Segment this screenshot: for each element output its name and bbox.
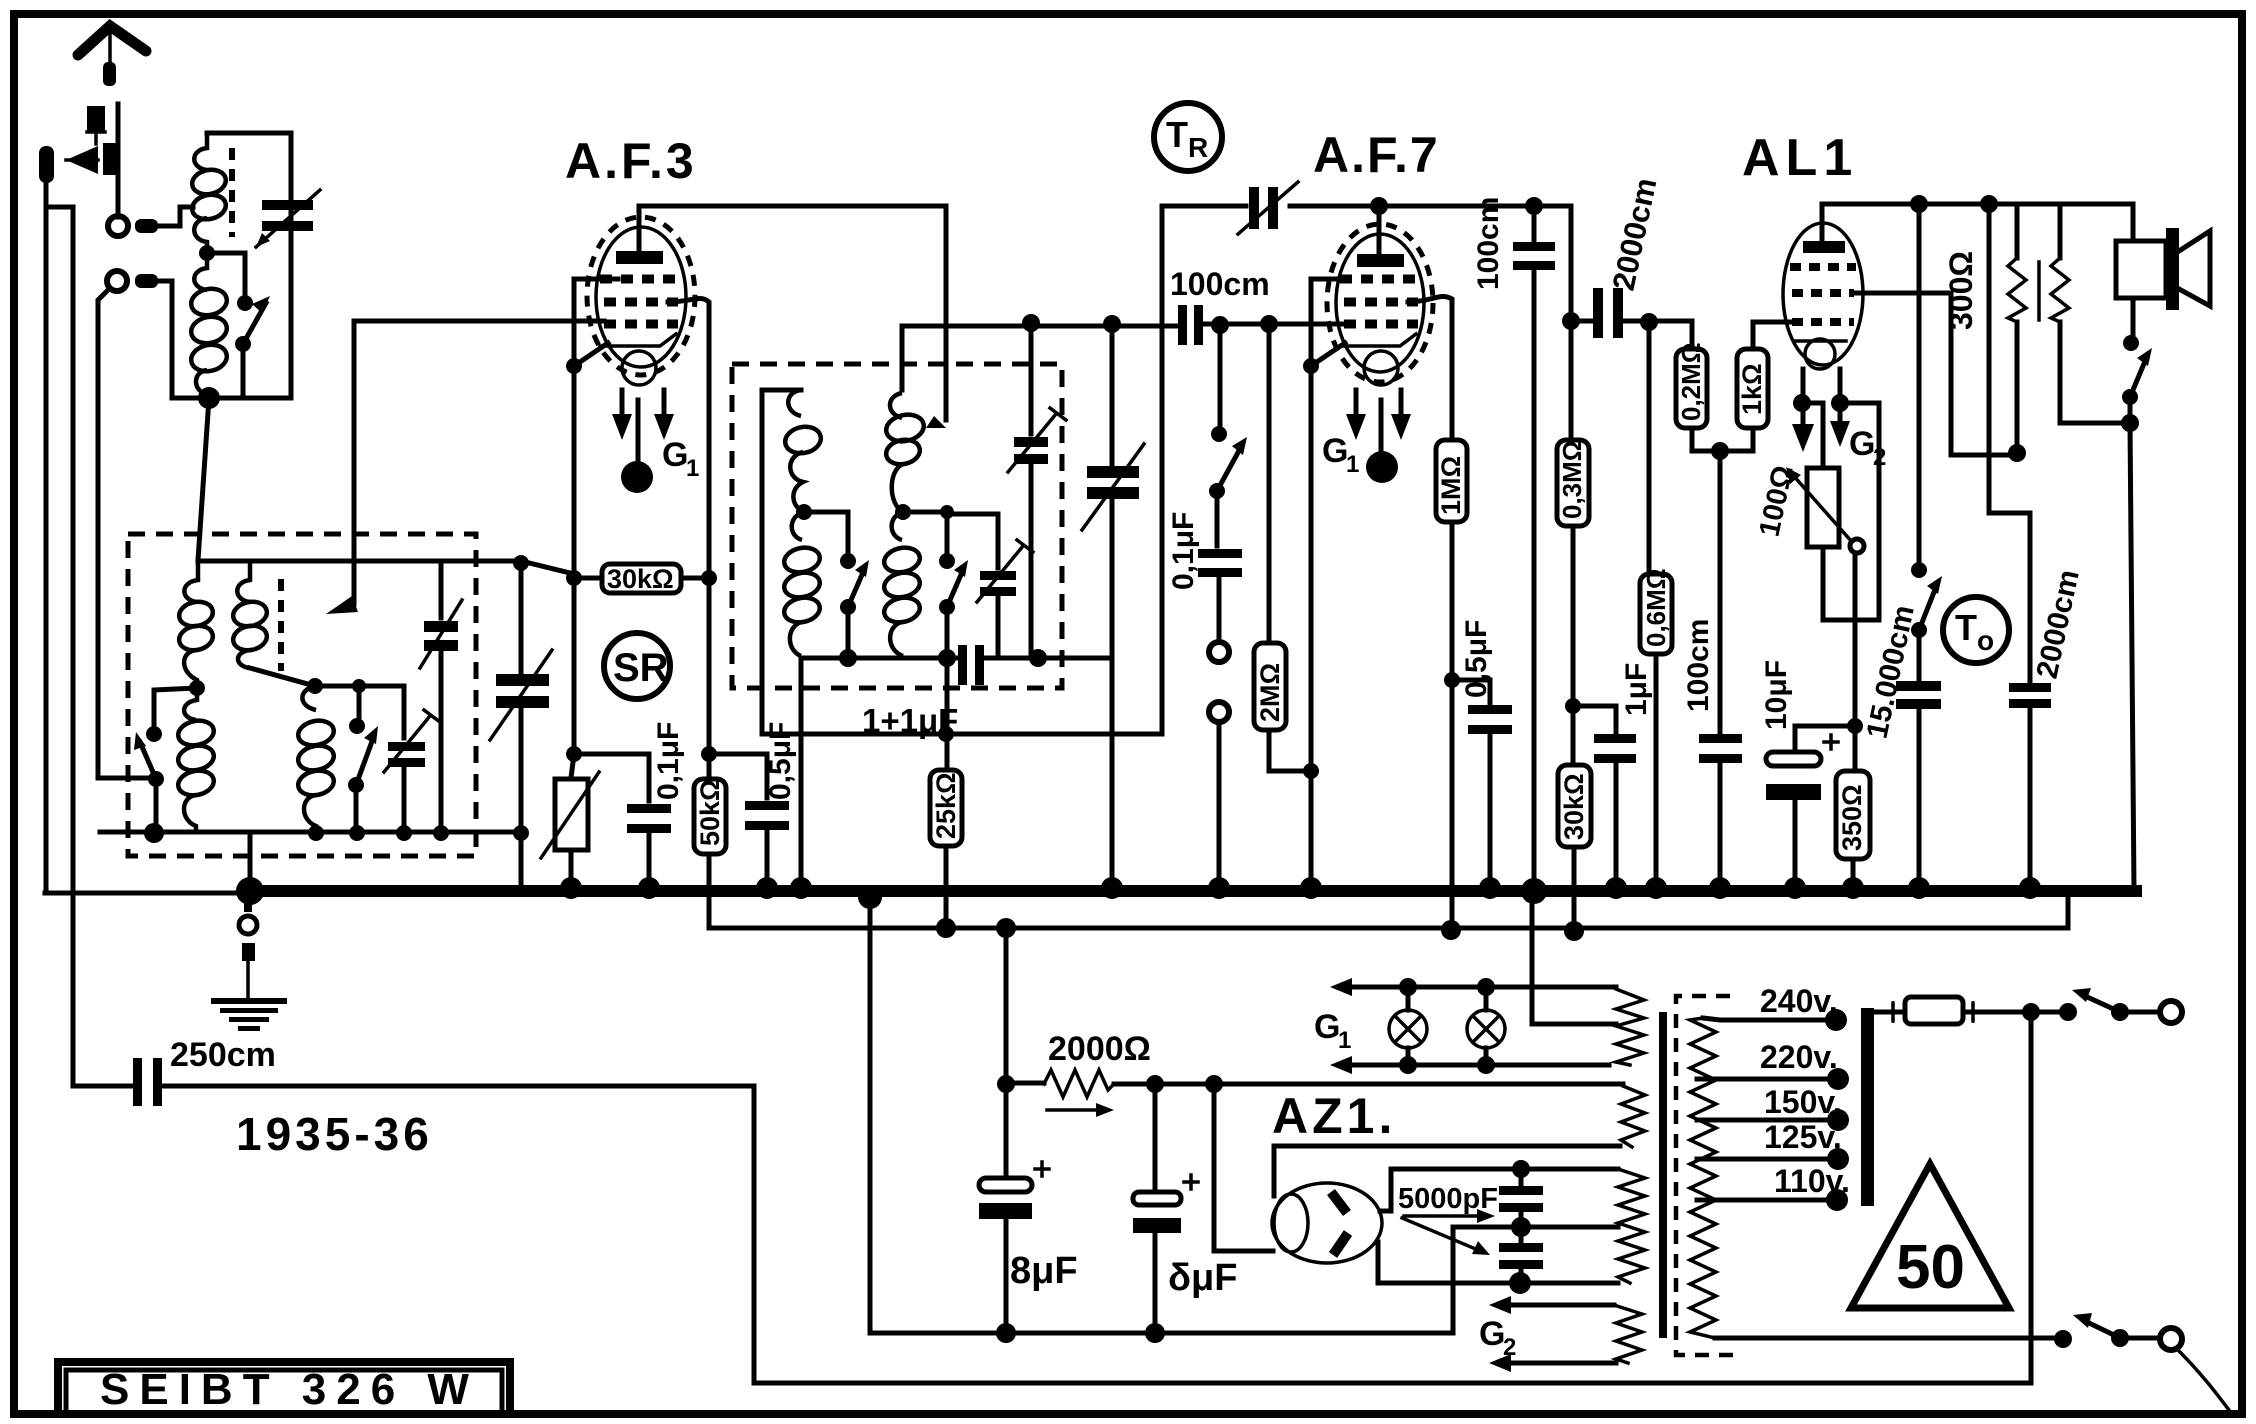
svg-text:0,1μF: 0,1μF xyxy=(1167,512,1200,590)
grid g2 row AF7 xyxy=(1344,298,1418,307)
heater arrow AF3 left xyxy=(612,390,632,440)
capacitor 2000cm anode xyxy=(1989,204,2086,884)
coil L2a xyxy=(231,561,315,686)
taps voltage selector xyxy=(1697,983,1850,1211)
heater arrow AF7 left xyxy=(1346,390,1366,440)
svg-text:0,1μF: 0,1μF xyxy=(652,722,685,800)
resistor 350Ohm R11 xyxy=(1836,726,1870,884)
svg-text:A.F.7: A.F.7 xyxy=(1313,127,1440,183)
svg-text:0,3MΩ: 0,3MΩ xyxy=(1557,440,1587,519)
wire AF7 anode line xyxy=(1162,204,1571,209)
label To circle xyxy=(1943,597,2009,663)
wire mains return xyxy=(2029,1012,2034,1383)
cathode circle AL1 xyxy=(1805,339,1835,369)
svg-text:0,2MΩ: 0,2MΩ xyxy=(1676,342,1706,421)
svg-text:2: 2 xyxy=(1503,1334,1516,1361)
node bus junctions left xyxy=(560,877,582,899)
wire AZ1 plate bottom right xyxy=(1378,1242,1618,1283)
heater arrows AL1 xyxy=(1792,369,1886,471)
antenna symbol xyxy=(78,26,146,86)
anode plate AF7 xyxy=(1357,254,1404,267)
svg-text:50kΩ: 50kΩ xyxy=(695,779,725,846)
resistor 0,3MOhm R6 xyxy=(1557,321,1589,765)
cathode line AF7 xyxy=(1342,334,1416,346)
wire mid tap to winding xyxy=(1521,1225,1618,1230)
cathode circle AF7 xyxy=(1364,351,1398,385)
label box SEIBT 326 W xyxy=(58,1362,510,1414)
svg-text:δμF: δμF xyxy=(1168,1257,1238,1299)
svg-text:G: G xyxy=(1314,1008,1340,1046)
tube AL1 envelope xyxy=(1783,223,1863,365)
wire second line (bias rail) xyxy=(709,897,2068,928)
svg-text:100cm: 100cm xyxy=(1170,266,1270,302)
svg-text:o: o xyxy=(1977,625,1994,656)
capacitor 8uF electrolytic no2 xyxy=(1133,1084,1238,1343)
bus wire xyxy=(250,885,2136,897)
svg-text:AZ1.: AZ1. xyxy=(1272,1088,1396,1144)
resistor 0,6MOhm R8 xyxy=(1640,322,1672,884)
node L2 junction xyxy=(307,678,323,694)
resistor 1kOhm R10 xyxy=(1720,324,1768,451)
capacitor 2000cm coupling xyxy=(1593,175,1664,338)
node T1 center tap xyxy=(199,245,215,261)
wire earth drop from rail xyxy=(248,833,253,885)
svg-text:AL1: AL1 xyxy=(1742,129,1858,187)
cathode line AL1 xyxy=(1794,339,1846,343)
grid g3 row AL1 xyxy=(1792,318,1854,326)
resistor 1MOhm R5 xyxy=(1436,440,1467,931)
capacitor 0,5uF C6 xyxy=(709,722,797,884)
resistor 2000 Ohm smoothing xyxy=(1006,1030,1623,1117)
cathode circle AF3 xyxy=(622,351,656,385)
box filter2 dashed xyxy=(732,364,1062,688)
wire filter2 feedback bottom line xyxy=(762,206,1162,734)
grid g1 row AF3 xyxy=(600,275,682,284)
wire screen column down xyxy=(707,578,712,754)
resistor 30kOhm R1 xyxy=(566,564,717,594)
wire AF3 anode feed into filter2 xyxy=(944,207,949,420)
svg-text:G: G xyxy=(1479,1315,1505,1353)
wire filter1 top rail xyxy=(198,561,574,574)
wire terminal2 to earth lead xyxy=(98,288,152,778)
node AF3 cathode tap xyxy=(566,358,582,374)
wire T1 secondary to filter xyxy=(198,398,209,560)
wire grid column down xyxy=(572,578,577,754)
wire AF3 g3 line to filter tap xyxy=(354,321,604,604)
wire bus left thin xyxy=(45,891,250,896)
node HT line dots xyxy=(997,1075,1015,1093)
node L3 junction xyxy=(796,504,812,520)
svg-text:240v.: 240v. xyxy=(1760,983,1838,1019)
svg-text:30kΩ: 30kΩ xyxy=(1559,773,1589,840)
svg-text:25kΩ: 25kΩ xyxy=(931,772,961,839)
transformer output secondary zigzag xyxy=(2051,206,2130,423)
grid cap G1 AF3 xyxy=(621,400,699,493)
capacitor 0,1uF C5 xyxy=(574,722,685,884)
svg-text:50: 50 xyxy=(1896,1233,1965,1302)
tube AF7 outer dashed envelope xyxy=(1327,224,1433,382)
wire speaker return to bus xyxy=(2130,423,2134,891)
anode plate AL1 xyxy=(1803,241,1845,253)
wire bottom return line xyxy=(870,897,1451,1333)
wire filter2 bottom rail xyxy=(801,656,1112,661)
label TR circle xyxy=(1154,103,1222,171)
transformer core bar xyxy=(1659,1012,1667,1338)
svg-text:2000Ω: 2000Ω xyxy=(1048,1030,1151,1068)
antenna plug assembly xyxy=(66,104,120,217)
wire AL1 anode to output line xyxy=(1822,204,2133,241)
wire AF7 cathode column xyxy=(1311,279,1340,884)
wire AZ1 plate top right xyxy=(1380,1169,1618,1211)
switch filter2 left xyxy=(804,512,869,658)
grid g1 row AF7 xyxy=(1340,275,1422,284)
grid g2 row AF3 xyxy=(604,298,678,307)
svg-text:250cm: 250cm xyxy=(170,1036,276,1074)
coil T1 secondary xyxy=(189,253,230,395)
terminal antenna jack 1 xyxy=(108,216,158,236)
capacitor 8uF electrolytic no1 xyxy=(979,1084,1078,1343)
svg-text:100cm: 100cm xyxy=(1682,619,1715,712)
resistor 30kOhm R7 xyxy=(1558,765,1591,941)
node bus junctions mid xyxy=(1101,877,1123,899)
svg-text:350Ω: 350Ω xyxy=(1837,784,1867,851)
coil L2b xyxy=(296,686,336,833)
capacitor trimmer filter1 xyxy=(359,686,440,833)
node L1a bottom xyxy=(189,680,205,696)
resistor 100Ohm variable (pot) xyxy=(1754,403,1864,553)
switch mains line2 xyxy=(2054,1313,2232,1414)
coil T1 primary xyxy=(190,133,228,253)
coil L4a primary xyxy=(884,393,927,512)
arrows G2 heater xyxy=(1479,1296,1616,1372)
coil L1a xyxy=(177,561,215,688)
label SR xyxy=(604,633,670,699)
capacitor trimmer filter2 big xyxy=(1008,323,1066,658)
grid g2 row AL1 xyxy=(1792,289,1854,297)
coil L4b xyxy=(882,512,922,656)
svg-text:1: 1 xyxy=(1338,1027,1351,1054)
coil L3a xyxy=(783,390,824,512)
grid g1 row AL1 xyxy=(1790,263,1856,271)
svg-text:SR: SR xyxy=(613,646,669,690)
ground earth symbol xyxy=(211,895,287,1031)
fuse xyxy=(1868,997,2061,1024)
wire coil L3b bottom to bus xyxy=(799,658,804,884)
speaker xyxy=(2116,206,2210,310)
node bus drop junction xyxy=(858,885,882,909)
core T1 dashed xyxy=(229,148,235,237)
coil L1b xyxy=(176,688,216,833)
svg-text:1μF: 1μF xyxy=(1620,663,1653,716)
grid g3 row AF7 xyxy=(1344,320,1418,329)
svg-text:110v.: 110v. xyxy=(1774,1163,1850,1199)
wire AF3 anode to plate line xyxy=(639,206,946,251)
node rail dots xyxy=(144,823,164,843)
wire AZ1 cathode to winding xyxy=(1274,1146,1620,1196)
svg-text:2MΩ: 2MΩ xyxy=(1255,663,1285,722)
capacitor 100cm AL1 grid xyxy=(1682,451,1742,884)
transformer core dashed box xyxy=(1676,996,1734,1355)
wire AF7 screen hook to right xyxy=(1408,297,1452,440)
wire AF7 grid line xyxy=(902,324,1344,390)
wire AZ1 anode feed xyxy=(1214,1084,1273,1251)
switch mains line1 xyxy=(2059,988,2182,1023)
svg-text:220v.: 220v. xyxy=(1760,1039,1838,1075)
svg-text:A.F.3: A.F.3 xyxy=(565,133,697,189)
switch speaker xyxy=(2121,299,2152,432)
wire terminal2 stub to box bottom xyxy=(158,281,172,398)
wire T1 frame xyxy=(172,133,291,398)
wire AL1 heater branch right xyxy=(1823,403,1879,620)
wire lamp winding center tap xyxy=(1532,891,1616,1024)
switch tone 15000cm xyxy=(1911,204,1942,680)
capacitor 250cm xyxy=(133,1036,276,1106)
wire terminal1 stub to coil xyxy=(158,207,193,226)
terminal antenna jack 2 xyxy=(107,271,158,291)
svg-text:30kΩ: 30kΩ xyxy=(607,564,674,594)
switch filter1 right xyxy=(315,679,378,833)
switch filter1 left xyxy=(134,688,197,833)
capacitor 100cm anode bypass xyxy=(1472,197,1555,886)
resistor 25kOhm R3 xyxy=(930,658,962,928)
lamps dial G1 xyxy=(1314,978,1616,1074)
wire secondary bottom to switch xyxy=(1715,1336,2056,1341)
wire 250cm aerial line xyxy=(73,207,2031,1383)
box filter1 dashed xyxy=(128,534,476,856)
node second line dot xyxy=(1441,920,1461,940)
svg-text:1kΩ: 1kΩ xyxy=(1737,363,1767,415)
capacitor 0,5uF C9 xyxy=(1452,620,1512,884)
resistor 0,2MOhm R9 xyxy=(1676,324,1720,451)
capacitor 5000pF pair xyxy=(1398,1160,1543,1294)
wire filter1 bottom rail xyxy=(100,830,522,835)
svg-text:125v.: 125v. xyxy=(1764,1119,1842,1155)
svg-text:300Ω: 300Ω xyxy=(1943,251,1979,330)
svg-text:R: R xyxy=(1188,132,1208,163)
node L4 junction xyxy=(895,504,911,520)
svg-text:1: 1 xyxy=(686,455,699,482)
wire AF3 grid row1 to grid column xyxy=(574,279,618,573)
switch filter2 right xyxy=(903,505,968,658)
node rail2 dots xyxy=(839,649,857,667)
wire AF3 screen hook to 709 column xyxy=(668,298,709,573)
svg-text:1MΩ: 1MΩ xyxy=(1436,456,1466,515)
wire AL1 screen to transformer xyxy=(1854,293,2017,455)
node fuse line junction xyxy=(2022,1003,2040,1021)
coil L3b xyxy=(782,512,822,656)
capacitor 15000cm xyxy=(1861,602,1941,884)
node grid line dots xyxy=(1022,314,1040,332)
wire feedback link left xyxy=(762,390,801,734)
grid g3 row AF3 xyxy=(604,320,678,329)
wire cathode RC to bus xyxy=(1853,620,1858,726)
node bus junctions far right xyxy=(1908,877,1930,899)
svg-text:G: G xyxy=(1322,432,1348,470)
capacitor variable antenna trim (big, outside box) xyxy=(490,555,552,885)
svg-text:10μF: 10μF xyxy=(1760,660,1793,730)
tube AF3 outer dashed envelope xyxy=(587,217,695,375)
capacitor 10uF electrolytic xyxy=(1760,660,1855,884)
svg-text:100cm: 100cm xyxy=(1472,197,1505,290)
svg-text:8μF: 8μF xyxy=(1010,1250,1078,1292)
anode plate AF3 xyxy=(616,251,663,264)
wire coupling line xyxy=(1571,206,1790,322)
tube AF3 inner envelope xyxy=(596,227,686,367)
svg-text:G: G xyxy=(662,436,688,474)
wire HT feed column xyxy=(1004,928,1009,1084)
capacitor variable tuning AF7 xyxy=(1082,324,1144,884)
svg-text:T: T xyxy=(1166,114,1188,155)
transformer output primary zigzag xyxy=(1943,204,2026,462)
wire AF7 anode to plate line xyxy=(1377,206,1382,254)
resistor 2MOhm R4 xyxy=(1254,324,1311,771)
svg-text:G: G xyxy=(1849,425,1875,463)
capacitor trimmer TR xyxy=(1238,182,1298,234)
switch pickup + capacitor 0,1uF xyxy=(1167,325,1247,884)
svg-text:0,5μF: 0,5μF xyxy=(1460,620,1493,698)
selector bar xyxy=(1861,1008,1874,1206)
cathode line AF3 xyxy=(600,334,676,346)
node earth junction on bus xyxy=(236,877,264,905)
node second line dots xyxy=(936,918,956,938)
plug pin on down-lead xyxy=(39,146,73,893)
heater arrow AF3 right xyxy=(654,390,674,440)
capacitor 1+1uF series xyxy=(862,645,984,739)
node coupling dots xyxy=(1562,312,1580,330)
label 50 Hz triangle xyxy=(1851,1164,2009,1308)
grid cap G1 AF7 xyxy=(1322,400,1398,483)
capacitor variable filter1 xyxy=(420,561,462,833)
capacitor 100cm grid coupling xyxy=(1170,266,1270,345)
svg-text:1935-36: 1935-36 xyxy=(236,1108,433,1160)
resistor 50kOhm R2 xyxy=(694,754,726,897)
switch T1 band xyxy=(207,253,270,398)
svg-text:150v.: 150v. xyxy=(1764,1084,1842,1120)
node anode line dots xyxy=(1910,195,1928,213)
svg-text:T: T xyxy=(1955,607,1977,648)
node T1 bottom xyxy=(198,387,220,409)
svg-text:1: 1 xyxy=(1346,451,1359,478)
capacitor trimmer filter2 small xyxy=(947,514,1033,658)
node grid node AL1 xyxy=(1711,442,1729,460)
node bus junctions right-mid xyxy=(1605,877,1627,899)
capacitor tuning var T1 xyxy=(256,190,320,247)
transformer secondary winding xyxy=(1690,1018,1716,1338)
capacitor 1uF xyxy=(1573,663,1653,884)
transformer output core xyxy=(2037,262,2041,320)
resistor variable bias pot xyxy=(541,754,599,884)
tube AF7 inner envelope xyxy=(1336,234,1424,372)
svg-text:SEIBT 326 W: SEIBT 326 W xyxy=(100,1365,479,1414)
svg-text:0,6MΩ: 0,6MΩ xyxy=(1641,568,1671,647)
heater arrow AF7 right xyxy=(1391,390,1411,440)
transformer mains primary winding xyxy=(1614,989,1645,1363)
core filter1 dashed xyxy=(278,579,284,671)
wire filament center tap return xyxy=(1453,1227,1521,1333)
svg-text:5000pF: 5000pF xyxy=(1398,1183,1498,1215)
